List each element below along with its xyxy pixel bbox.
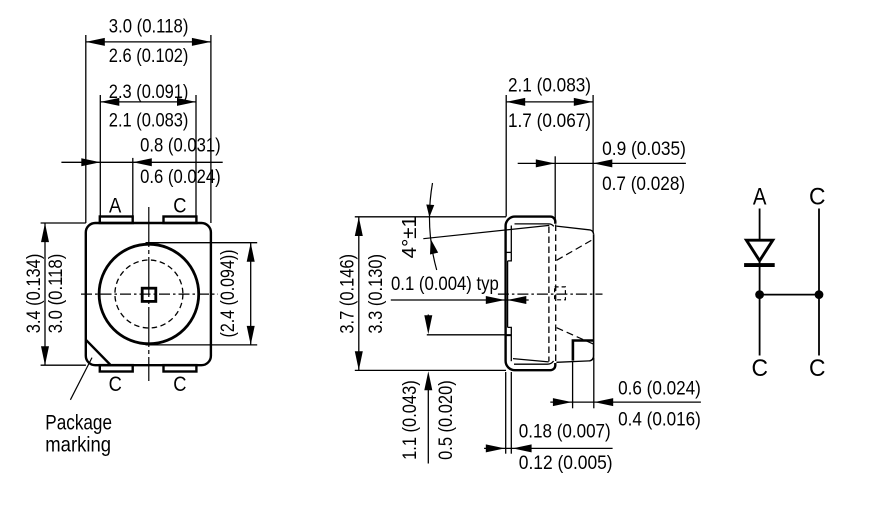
- node junction left: [755, 290, 764, 299]
- body left edge (between notches): [507, 261, 509, 328]
- svg-text:0.9 (0.035): 0.9 (0.035): [602, 138, 686, 160]
- dim 2.1/1.7 line: [506, 95, 593, 233]
- lens tangent extension lines: [146, 242, 258, 244]
- package marking leader line: [70, 358, 92, 400]
- svg-text:0.18 (0.007): 0.18 (0.007): [519, 421, 611, 443]
- svg-text:3.3 (0.130): 3.3 (0.130): [365, 254, 387, 334]
- horizontal centerline: [81, 293, 218, 295]
- svg-text:0.4 (0.016): 0.4 (0.016): [618, 408, 701, 430]
- lead inner jog lower: [508, 327, 512, 335]
- 4 deg angle arc: [430, 183, 437, 270]
- svg-text:C: C: [751, 355, 768, 382]
- svg-text:0.1 (0.004) typ: 0.1 (0.004) typ: [391, 273, 499, 295]
- lead inner face upper: [510, 226, 512, 253]
- pad C (bottom left): [100, 365, 133, 371]
- svg-text:3.4 (0.134): 3.4 (0.134): [23, 254, 45, 334]
- chamfer corner (package marking): [86, 340, 110, 365]
- wire connecting junctions: [760, 294, 819, 296]
- svg-text:A: A: [753, 184, 767, 211]
- hidden chip square: [555, 287, 566, 300]
- pad C (top right): [164, 217, 197, 224]
- package body outline: [86, 223, 211, 365]
- lead top arm underside: [515, 224, 554, 226]
- hidden edge vertical 1: [548, 227, 550, 362]
- svg-text:2.6 (0.102): 2.6 (0.102): [109, 45, 189, 67]
- mold notch (bottom right): [573, 341, 594, 361]
- lead inner face lower: [510, 336, 512, 362]
- wire cathode vertical: [818, 209, 820, 356]
- body top slant (4 deg reference line): [423, 225, 549, 238]
- svg-text:3.7 (0.146): 3.7 (0.146): [336, 254, 358, 334]
- side view horizontal centerline: [498, 293, 603, 295]
- lead cut edge upper: [506, 251, 512, 253]
- svg-text:C: C: [809, 355, 826, 382]
- dim 0.1 typ line: [391, 296, 529, 304]
- pad A (top left): [100, 217, 133, 224]
- hidden cone lower diagonal: [557, 328, 594, 344]
- svg-text:C: C: [173, 193, 186, 217]
- svg-text:0.6 (0.024): 0.6 (0.024): [140, 166, 221, 188]
- lead inner jog upper: [508, 252, 512, 261]
- svg-text:2.3 (0.091): 2.3 (0.091): [109, 81, 189, 103]
- svg-text:Package: Package: [45, 410, 112, 434]
- dim 1.1/0.5 up arrow: [424, 371, 432, 463]
- svg-text:0.12 (0.005): 0.12 (0.005): [519, 452, 613, 474]
- svg-text:C: C: [809, 184, 826, 211]
- svg-text:3.0 (0.118): 3.0 (0.118): [45, 254, 67, 334]
- pad C (bottom right): [164, 365, 197, 371]
- svg-text:(2.4 (0.094)): (2.4 (0.094)): [217, 250, 239, 338]
- svg-text:0.8 (0.031): 0.8 (0.031): [140, 135, 221, 157]
- dim 2.3/2.1 line: [100, 95, 196, 217]
- dim 0.9/0.7 line: [518, 156, 686, 221]
- lead cut edge lower: [506, 335, 512, 337]
- body bottom face: [556, 361, 589, 362]
- wire anode vertical: [759, 209, 761, 356]
- dashed inner circle: [115, 260, 183, 328]
- dim 3.4/3.0 vertical line: [41, 223, 86, 365]
- lens circle: [99, 244, 199, 344]
- angle arrow upper: [425, 204, 434, 217]
- body bottom slant under lead: [513, 359, 549, 362]
- body top face right of lead: [557, 226, 594, 234]
- dim 0.6/0.4 line: [550, 358, 701, 409]
- dim 3.7/3.3 vertical line: [355, 217, 363, 370]
- svg-text:C: C: [109, 372, 122, 396]
- vertical centerline: [148, 207, 150, 381]
- lead bottom arm topside: [514, 361, 554, 364]
- svg-text:C: C: [173, 372, 186, 396]
- dim 3.0/2.6 line: [86, 35, 211, 223]
- svg-text:1.7 (0.067): 1.7 (0.067): [508, 110, 591, 132]
- extension line for 3.7 bottom: [355, 369, 506, 371]
- svg-text:0.5 (0.020): 0.5 (0.020): [435, 380, 457, 460]
- dim 1.1/0.5 down arrow: [424, 315, 432, 335]
- svg-text:0.6 (0.024): 0.6 (0.024): [618, 377, 701, 399]
- svg-text:3.0 (0.118): 3.0 (0.118): [109, 15, 189, 37]
- svg-text:2.1 (0.083): 2.1 (0.083): [109, 110, 189, 132]
- chip square: [142, 288, 156, 301]
- svg-text:A: A: [109, 193, 122, 217]
- dim 0.18/0.12 line: [484, 372, 612, 454]
- svg-text:4°±1: 4°±1: [398, 216, 421, 258]
- dim 1.1/0.5 extension line upper: [427, 334, 511, 336]
- hidden cone upper diagonal: [557, 239, 594, 260]
- angle arrow lower: [427, 238, 439, 255]
- lead outer profile: [506, 217, 556, 371]
- svg-text:marking: marking: [45, 432, 111, 456]
- svg-text:1.1 (0.043): 1.1 (0.043): [399, 380, 421, 460]
- svg-text:2.1 (0.083): 2.1 (0.083): [508, 75, 591, 97]
- svg-text:0.7 (0.028): 0.7 (0.028): [602, 173, 685, 195]
- hidden edge vertical 2: [555, 225, 557, 363]
- extension line for 3.7 top: [355, 216, 506, 218]
- LED diode D1: [744, 240, 775, 267]
- dim 0.8/0.6 line: [61, 158, 222, 217]
- dim (2.4) vertical line: [247, 243, 255, 345]
- node junction right: [815, 290, 824, 299]
- body right face: [589, 234, 593, 361]
